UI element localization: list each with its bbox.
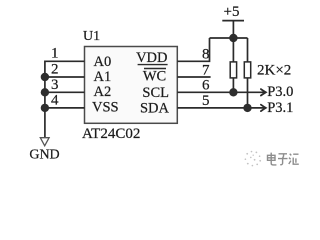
junction dot bus/pin3 (41, 88, 49, 96)
svg-text:SDA: SDA (140, 100, 170, 116)
wire pin4 VSS to ground bus (45, 107, 85, 109)
wire pin5 SDA to P3.1 (177, 107, 265, 109)
svg-text:AT24C02: AT24C02 (82, 126, 140, 142)
IC U1 body (AT24C02 EEPROM) (85, 47, 178, 124)
wire ground bus vertical (44, 77, 46, 138)
resistor R2 bottom lead (247, 78, 249, 108)
char 子 (278, 154, 288, 165)
svg-text:VSS: VSS (92, 100, 119, 116)
power +5 T-bar (222, 20, 244, 22)
resistor R2 body (2K) (244, 62, 250, 78)
svg-text:SCL: SCL (142, 85, 169, 101)
arrowhead to P3.1 (261, 105, 266, 111)
svg-text:GND: GND (29, 148, 59, 163)
svg-text:7: 7 (202, 62, 210, 78)
svg-text:A2: A2 (94, 84, 112, 100)
svg-text:VDD: VDD (136, 50, 167, 66)
svg-text:2K×2: 2K×2 (257, 62, 291, 78)
wire pin6 SCL to P3.0 (177, 91, 265, 93)
VDD underline (138, 64, 168, 66)
resistor R1 top lead (232, 38, 234, 62)
svg-text:+5: +5 (224, 4, 240, 20)
svg-text:4: 4 (51, 92, 59, 108)
svg-text:A1: A1 (94, 69, 112, 85)
svg-text:A0: A0 (94, 54, 112, 70)
power +5 stem (232, 21, 234, 38)
junction dot bus/pin4 (41, 104, 49, 112)
wire pin7 WC stub (177, 76, 210, 78)
svg-text:1: 1 (51, 46, 59, 62)
ground symbol (open triangle) (40, 138, 49, 146)
wire pin2 A1 to ground bus (45, 76, 85, 78)
char 电 (268, 153, 277, 165)
resistor R1 body (2K) (230, 62, 236, 78)
wire +5 rail horizontal (210, 37, 248, 39)
char 汇 (289, 154, 299, 164)
svg-text:3: 3 (51, 77, 59, 93)
resistor R2 top lead (rail corner down) (247, 38, 249, 62)
svg-text:WC: WC (143, 68, 166, 84)
svg-text:P3.1: P3.1 (267, 100, 293, 116)
svg-text:U1: U1 (83, 29, 100, 44)
junction dot R1/pin6 (229, 88, 237, 96)
junction dot R2/pin5 (243, 104, 251, 112)
svg-text:2: 2 (51, 61, 59, 77)
arrowhead to P3.0 (261, 89, 266, 95)
junction dot bus/pin2 (41, 73, 49, 81)
wire pin1 A0 to ground bus (corner) (45, 61, 85, 77)
WC overline (144, 68, 166, 70)
wire pin3 A2 to ground bus (45, 91, 85, 93)
svg-text:5: 5 (202, 93, 210, 109)
resistor R1 bottom lead (232, 78, 234, 92)
svg-text:P3.0: P3.0 (267, 84, 293, 100)
svg-text:6: 6 (202, 78, 210, 94)
wire pin8 VDD to +5 rail (corner up) (177, 38, 209, 61)
watermark text 电子汇 (drawn strokes) (268, 153, 299, 165)
svg-text:8: 8 (202, 47, 210, 63)
junction dot +5 rail (229, 34, 237, 42)
watermark logo badge (faint speckled circle) (245, 151, 262, 167)
